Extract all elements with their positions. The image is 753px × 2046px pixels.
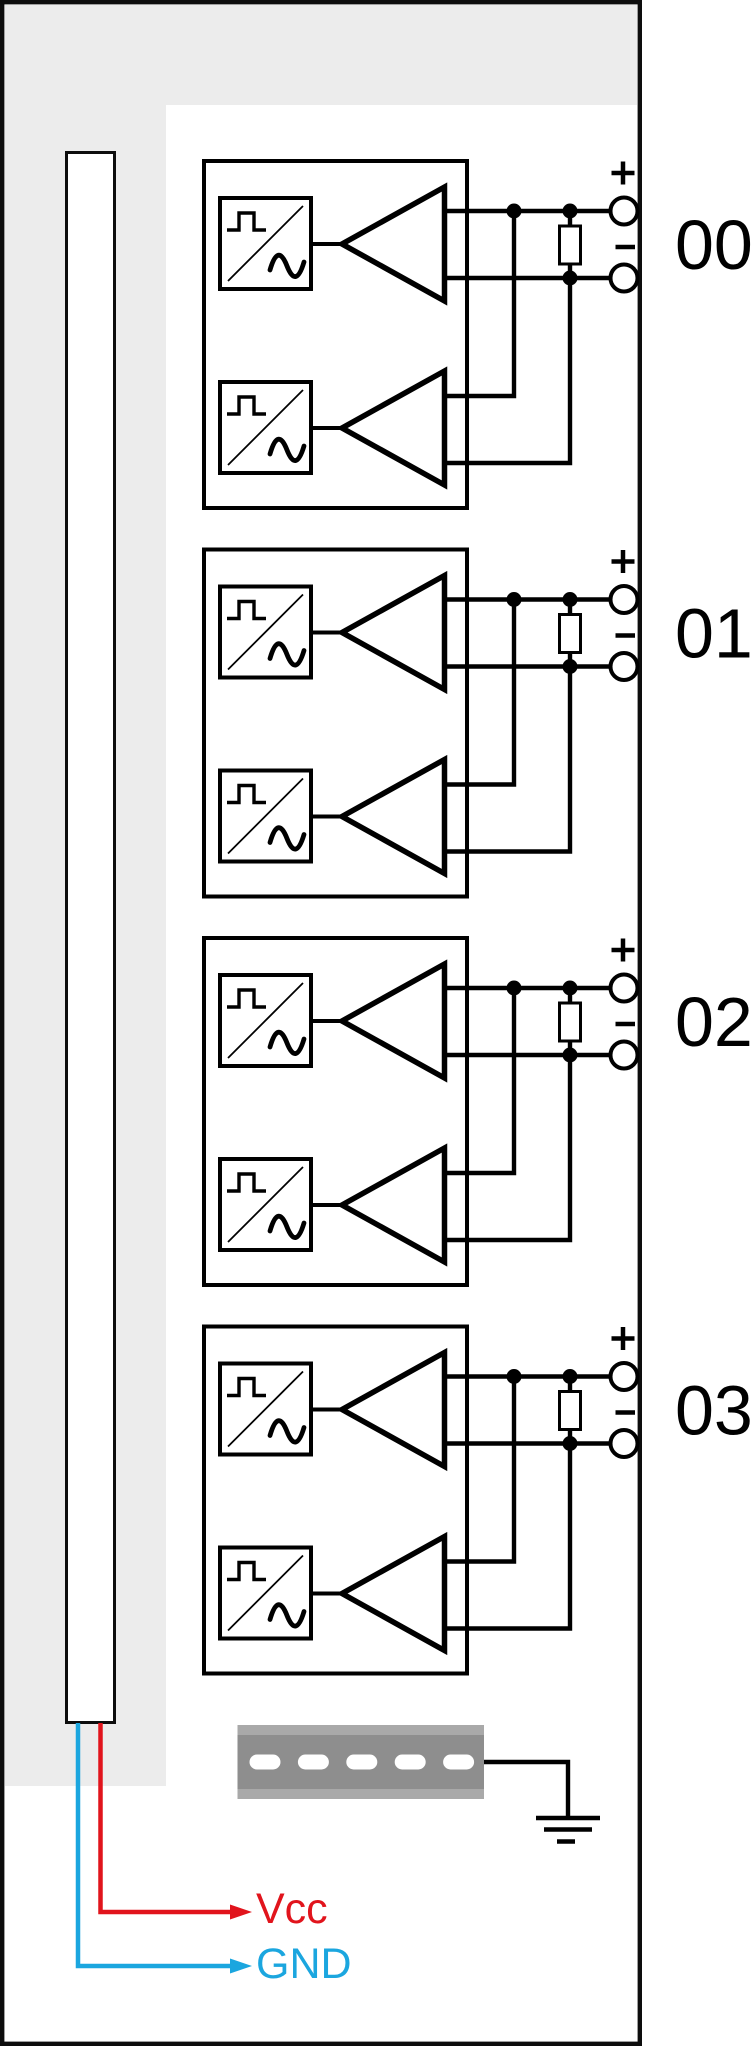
svg-text:Vcc: Vcc bbox=[256, 1885, 328, 1933]
svg-text:01: 01 bbox=[675, 595, 753, 673]
svg-text:02: 02 bbox=[675, 983, 753, 1061]
svg-text:03: 03 bbox=[675, 1372, 753, 1450]
svg-text:GND: GND bbox=[256, 1940, 352, 1988]
svg-text:00: 00 bbox=[675, 206, 753, 284]
